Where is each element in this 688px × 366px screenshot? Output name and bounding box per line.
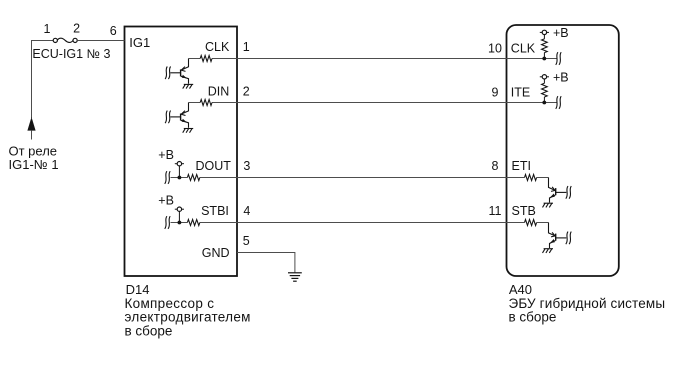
node: DOUT +B junction [178,176,182,180]
svg-text:9: 9 [492,85,499,99]
arrow from relay IG1 No.1 [27,117,35,131]
svg-text:A40: A40 [509,282,532,297]
svg-text:1: 1 [243,40,250,54]
svg-text:6: 6 [110,24,117,38]
fuse ECU-IG1 No.3 terminal 1 [53,38,57,42]
transistor Q3 (ETI input, A40) emitter chassis ground [544,202,553,204]
resistor in series with CLK (left box) [200,56,212,62]
transistor Q3 (ETI input, A40) [549,178,567,203]
wire GND: pin 5 to earth ground [237,253,295,273]
transistor Q3 (ETI input, A40) base internal connection squiggle [566,186,568,199]
terminal +B (STBI) [175,208,184,210]
svg-text:электродвигателем: электродвигателем [125,310,251,325]
transistor Q4 (STB input, A40) [549,223,567,249]
wire DIN: transistor to resistor, pin 2, to ECU pin 9 junction [189,102,201,104]
+B feed (DOUT) [178,166,180,178]
wire CLK junction to internal squiggle [544,58,557,60]
svg-text:IG1: IG1 [129,35,150,50]
transistor Q4 (STB input, A40) emitter chassis ground [544,248,553,250]
resistor in series with DIN (left box) [200,100,212,106]
svg-text:DIN: DIN [208,85,230,99]
earth ground symbol [288,273,302,281]
transistor Q2 (DIN driver, D14) emitter chassis ground [184,128,193,130]
svg-text:4: 4 [243,204,250,218]
DOUT internal squiggle (D14) [165,171,167,184]
right ECU box A40 (rounded) [507,25,619,276]
svg-text:3: 3 [243,159,250,173]
wire from relay (vertical riser) [32,41,54,119]
wire fuse to connector pin 6 [77,40,124,42]
node: CLK pull-up junction [542,57,546,61]
svg-text:ECU-IG1 № 3: ECU-IG1 № 3 [32,47,110,61]
fuse ECU-IG1 No.3 element [57,38,73,42]
ITE internal squiggle (A40) [556,96,558,109]
wire ITE junction to internal squiggle [544,102,557,104]
svg-text:STB: STB [512,204,536,218]
STBI internal squiggle (D14) [165,216,167,229]
svg-text:ЭБУ гибридной системы: ЭБУ гибридной системы [509,296,666,311]
transistor Q1 (CLK driver, D14) emitter chassis ground [184,83,193,85]
node: STBI +B junction [178,221,182,225]
svg-text:CLK: CLK [511,42,536,56]
CLK internal squiggle (A40) [556,52,558,65]
svg-text:+B: +B [553,26,569,40]
svg-text:11: 11 [489,204,502,218]
wire CLK: transistor to resistor R, pin 1, to ECU pin 10 junction [189,58,201,60]
svg-text:DOUT: DOUT [195,159,231,173]
svg-text:D14: D14 [126,282,150,297]
svg-text:10: 10 [488,42,502,56]
svg-text:ETI: ETI [512,159,531,173]
resistor in series with STBI (left box) [187,220,199,226]
transistor Q4 (STB input, A40) base internal connection squiggle [566,232,568,245]
pull-up resistor to +B (ITE) [542,83,548,97]
transistor Q2 (DIN driver, D14) [170,103,188,128]
transistor Q2 (DIN driver, D14) base internal connection squiggle [165,111,167,124]
wire STB resistor to transistor [537,222,549,224]
svg-text:+B: +B [158,193,174,207]
wire ETI resistor to transistor [537,177,549,179]
terminal +B (DOUT) [175,163,184,165]
resistor in series with STB (A40) [525,220,537,226]
wire STBI: squiggle to junction, resistor, pin 4, to ECU pin 11 resistor [171,222,188,224]
svg-text:CLK: CLK [205,40,230,54]
terminal +B (ITE pull-up) [540,76,549,78]
+B feed (STBI) [178,211,180,222]
svg-text:8: 8 [492,159,499,173]
svg-text:+B: +B [158,148,174,162]
terminal +B (CLK pull-up) [540,31,549,33]
svg-text:2: 2 [73,22,80,36]
wire DOUT: squiggle to junction, resistor, pin 3, to ECU pin 8 resistor [171,177,188,179]
svg-text:5: 5 [243,234,250,248]
fuse ECU-IG1 No.3 terminal 2 [73,38,77,42]
node: ITE pull-up junction [542,101,546,105]
transistor Q1 (CLK driver, D14) [170,59,188,84]
pull-up resistor to +B (CLK) [542,39,548,53]
transistor Q1 (CLK driver, D14) base internal connection squiggle [165,67,167,80]
svg-text:в сборе: в сборе [509,310,557,325]
svg-text:ITE: ITE [511,85,530,99]
svg-text:IG1-№ 1: IG1-№ 1 [9,157,59,172]
svg-text:Компрессор с: Компрессор с [125,296,215,311]
resistor in series with ETI (A40) [525,175,537,181]
left connector box D14 [125,27,238,277]
svg-text:2: 2 [243,85,250,99]
svg-text:в сборе: в сборе [125,324,173,339]
svg-text:STBI: STBI [201,204,229,218]
svg-text:+B: +B [553,71,569,85]
resistor in series with DOUT (left box) [187,175,199,181]
svg-text:GND: GND [202,246,230,260]
svg-text:1: 1 [44,22,51,36]
